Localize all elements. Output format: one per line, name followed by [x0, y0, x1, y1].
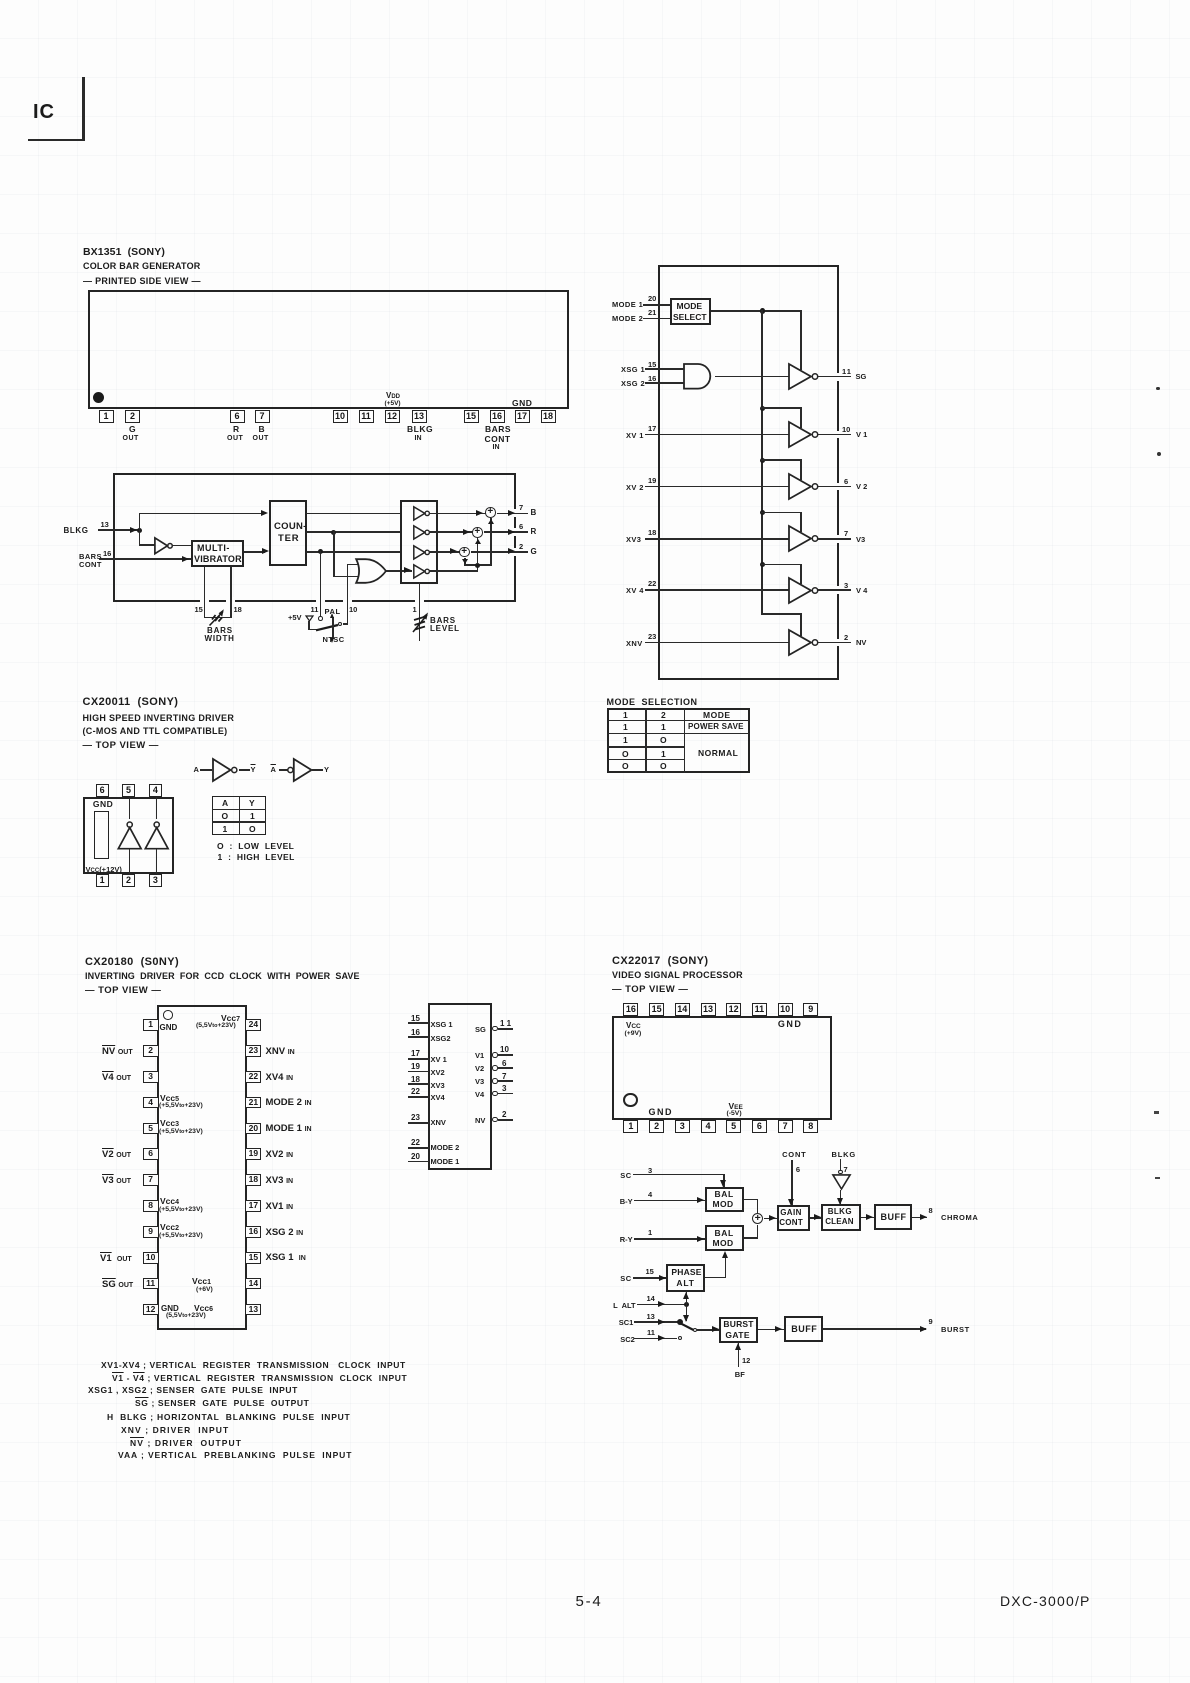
table title	[607, 697, 698, 707]
buffer NV triangle	[788, 629, 821, 656]
BF wire	[738, 1343, 740, 1368]
BAL MOD 2 box	[705, 1225, 744, 1251]
pin 13	[647, 1312, 655, 1321]
wire NV output	[818, 642, 851, 644]
pin 15	[648, 360, 656, 369]
pin 14	[647, 1294, 655, 1303]
pin 10	[333, 410, 348, 423]
buffer V2 triangle	[788, 473, 821, 500]
wire XV2	[645, 486, 789, 488]
BLKG stub	[840, 1159, 842, 1170]
pin 12	[385, 410, 400, 423]
control bus vertical	[761, 310, 763, 615]
BUFF output	[912, 1217, 927, 1219]
wire 4th buffer feed right	[429, 570, 478, 572]
adder G	[459, 547, 470, 558]
XV3 label	[626, 535, 641, 544]
arrowhead into multivibrator	[182, 556, 189, 562]
wire OR lower input	[333, 576, 362, 578]
junction dot on G row (to PAL pin 11)	[318, 549, 323, 554]
pin number 16	[103, 549, 111, 558]
junction dot BLKG	[137, 528, 142, 533]
wire down from R row to OR input	[333, 531, 335, 577]
pin 2 label G OUT	[129, 424, 136, 434]
column line 1	[645, 708, 647, 773]
down arrowhead under G adder	[462, 559, 468, 564]
inverter A1	[154, 537, 176, 555]
SG output name	[856, 372, 867, 381]
up arrowhead under R adder	[475, 539, 481, 544]
title CX22017	[612, 955, 708, 967]
VEE label	[729, 1101, 743, 1111]
wire XV4	[645, 589, 789, 591]
right bubble V2 / 6	[475, 1064, 484, 1073]
NTSC label	[323, 635, 345, 644]
title BX1351	[83, 246, 165, 258]
pin 1	[648, 1228, 652, 1237]
BARS WIDTH label	[207, 626, 233, 635]
wire B bubble to adder	[429, 513, 486, 515]
wire BARS CONT	[99, 558, 191, 560]
page number	[576, 1593, 603, 1610]
Vcc1	[192, 1276, 211, 1286]
IC tab horizontal line	[28, 139, 85, 142]
bars width variable resistor arrow	[206, 605, 230, 629]
adder to GAIN CONT	[764, 1218, 777, 1220]
title CX20011	[83, 696, 179, 708]
BURST GATE box	[719, 1317, 758, 1343]
wire counter output R row	[306, 531, 401, 533]
BAL MOD 1 box	[705, 1187, 744, 1212]
NTSC contact circle	[338, 622, 342, 626]
pin 6	[796, 1165, 800, 1174]
pin 13	[412, 410, 427, 423]
legend low/high	[217, 841, 294, 851]
buffer B triangle	[413, 506, 435, 521]
R-Y input label	[620, 1235, 633, 1244]
Vcc7	[221, 1013, 240, 1023]
right outside labels	[266, 1046, 295, 1057]
switch pivot dot	[677, 1319, 683, 1325]
bottom pin 2	[122, 874, 135, 887]
Vcc6	[194, 1303, 213, 1313]
wire 4th feed up	[477, 564, 479, 571]
wire counter output G row	[306, 551, 401, 553]
V2 output name	[856, 482, 867, 491]
left pin boxes 1-12	[143, 1019, 159, 1031]
V3 OUT	[102, 1175, 131, 1186]
feed to B adder (vertical)	[490, 518, 492, 564]
wire MODE1	[643, 304, 670, 306]
BLKG label	[832, 1150, 856, 1159]
pin 7 label	[844, 529, 848, 538]
switch arm	[678, 1321, 697, 1332]
row line 4 (cols 1-2 only)	[607, 759, 686, 760]
B-Y wire	[634, 1200, 705, 1202]
wire V1 output	[818, 434, 851, 436]
arrowhead on BLKG wire	[130, 527, 137, 533]
SC wire down into BAL MOD	[723, 1174, 725, 1187]
V1 OUT	[100, 1253, 132, 1264]
BUFF2 output wire	[823, 1328, 926, 1330]
XV 4 label	[626, 586, 644, 595]
GND bottom	[649, 1107, 674, 1117]
left stub 23 / XNV	[411, 1113, 420, 1122]
pin 22	[648, 579, 656, 588]
switch arm contact circle	[693, 1328, 697, 1332]
PAL label	[325, 607, 341, 616]
+5V wire right	[308, 629, 317, 631]
right bubble V4 / 3	[475, 1090, 484, 1099]
wire XNV	[645, 642, 789, 644]
left stub 22 / XV4	[411, 1087, 420, 1096]
Vcc4	[160, 1196, 179, 1206]
pin 2 label	[844, 633, 848, 642]
pin 7 label B OUT	[259, 424, 265, 434]
arrowhead before G adder	[450, 548, 457, 554]
pin 11 label	[842, 367, 852, 376]
GND label top	[512, 398, 532, 408]
A/Y truth table	[212, 796, 266, 835]
wire down to pin 11	[320, 551, 322, 616]
inverter symbol A to Ybar	[194, 765, 199, 774]
V1 control wire	[761, 407, 802, 409]
counter box	[269, 500, 307, 566]
junction dot bus top	[760, 308, 765, 313]
CHROMA label	[941, 1213, 978, 1222]
wire XV3	[645, 538, 789, 540]
SC1 wire	[634, 1321, 679, 1323]
left stub 20 / MODE 1	[411, 1152, 420, 1161]
buffer R triangle	[413, 525, 435, 540]
BUFF box (chroma)	[874, 1204, 912, 1230]
pin 17	[648, 424, 656, 433]
pin label 11	[311, 605, 319, 614]
PHASE ALT output to BAL MOD 2	[705, 1277, 726, 1279]
package CX22017	[612, 1016, 833, 1120]
right pin boxes 24-13	[245, 1019, 261, 1031]
arrowhead into 4th buffer	[404, 567, 411, 573]
junction dot L ALT	[684, 1302, 689, 1307]
top pin 6	[96, 784, 109, 797]
SECTION: signal legend	[101, 1360, 406, 1370]
table cells	[623, 710, 628, 720]
wire to burst gate	[697, 1329, 719, 1331]
wire V3 output	[818, 538, 851, 540]
pin 12	[742, 1356, 750, 1365]
feed to R adder (vertical)	[477, 538, 479, 564]
left stub 19 / XV2	[411, 1062, 420, 1071]
V3 row: bus junction dot	[760, 510, 765, 515]
V4 control wire	[761, 564, 802, 566]
wire top branch to counter	[139, 513, 263, 515]
pin number 13	[101, 520, 109, 529]
V2 control wire	[761, 459, 802, 461]
buffer V3 triangle	[788, 525, 821, 552]
Vcc5	[160, 1093, 179, 1103]
BARS LEVEL label	[430, 616, 456, 625]
wire G bubble to adder	[429, 551, 460, 553]
wire pin10 vertical (OR upper input down through boundary)	[347, 564, 349, 625]
buffer block box	[400, 500, 438, 584]
arrowhead before B adder	[476, 510, 483, 516]
wire AND output to SG buffer	[715, 376, 789, 378]
wire XSG1	[645, 368, 684, 370]
SG OUT	[102, 1279, 133, 1290]
PAL/NTSC toggle arrow (double head)	[332, 617, 333, 639]
junction dot feed	[475, 563, 480, 568]
bars level variable resistor	[407, 608, 433, 636]
GND pin1	[160, 1023, 178, 1032]
top pin 5	[122, 784, 135, 797]
pin 8	[929, 1206, 933, 1215]
buffer 4 triangle	[413, 564, 435, 579]
row line 3 (cols 1-2 only)	[607, 746, 686, 747]
package CX20180	[157, 1005, 246, 1331]
white gaps for wires crossing boundary	[510, 509, 518, 517]
adder B	[485, 507, 496, 518]
multivibrator pin 18 wire	[230, 567, 232, 618]
V4 OUT	[102, 1072, 131, 1083]
CONT wire down	[791, 1160, 793, 1205]
buffer V4 triangle	[788, 577, 821, 604]
wire V2 output	[818, 486, 851, 488]
wire NTSC circle to pin10 vertical	[343, 623, 349, 625]
SC(15) wire	[633, 1277, 667, 1279]
BLKG inverter bubble	[838, 1170, 843, 1175]
wire inverter2 base to pin3	[156, 849, 158, 875]
pin 6 label	[844, 477, 848, 486]
V3 output name	[856, 535, 865, 544]
row line 2	[607, 733, 750, 735]
wire MODE SELECT output	[711, 310, 802, 312]
wire multivibrator to counter	[244, 551, 265, 553]
V4 output name	[856, 586, 867, 595]
pin 4	[648, 1190, 652, 1199]
pin 13 label BLKG IN	[407, 424, 433, 434]
right bubble SG / 11	[475, 1025, 486, 1034]
GAIN to BLKG CLEAN	[810, 1217, 822, 1219]
bottom pin boxes 1..8	[623, 1120, 638, 1133]
node: BLKG input label	[64, 526, 89, 535]
PHASE ALT box	[666, 1264, 705, 1292]
R-Y wire	[634, 1238, 705, 1240]
MODE SELECT box	[670, 298, 711, 325]
+5V label	[288, 613, 302, 622]
wire inverter1 base to pin2	[129, 849, 131, 875]
XSG 1 label	[621, 365, 645, 374]
SG control drop	[800, 310, 802, 370]
inverter symbol Abar to Y	[271, 765, 276, 774]
GAIN CONT box	[777, 1205, 810, 1232]
outer boundary box	[658, 265, 840, 680]
index circle	[623, 1093, 638, 1108]
MODE 2 label	[612, 314, 643, 323]
GND pin12	[161, 1304, 179, 1313]
bottom pin 1	[96, 874, 109, 887]
pin1 index dot	[93, 392, 104, 403]
buffer SG triangle	[788, 363, 821, 390]
SC2 wire	[634, 1338, 677, 1340]
MODE 1 label	[612, 300, 643, 309]
pin 19	[648, 476, 656, 485]
Vdd label	[386, 391, 400, 400]
package CX20011	[83, 797, 174, 874]
SC2 open contact	[678, 1336, 682, 1340]
wire SG output	[818, 376, 851, 378]
column line 2	[684, 708, 686, 773]
BURST label	[941, 1325, 970, 1334]
table frame	[607, 708, 750, 773]
SC2 label	[620, 1335, 635, 1344]
pin label 10	[349, 605, 357, 614]
V3 control wire	[761, 512, 802, 514]
Vcc3	[160, 1118, 179, 1128]
SC(3) input label	[620, 1171, 631, 1180]
BLKG inverted triangle	[832, 1174, 851, 1190]
wire vertical at junction	[139, 513, 141, 546]
scan speck 1	[1156, 387, 1160, 391]
IC body BX1351 package	[88, 290, 569, 409]
inverter 1 (up)	[117, 821, 143, 850]
pin label 1 (bars level)	[413, 605, 417, 614]
+5V terminal triangle	[305, 615, 314, 622]
top pin 4	[149, 784, 163, 797]
wire R adder to output	[484, 531, 528, 533]
Vcc label	[626, 1021, 641, 1030]
V1 output name	[856, 430, 867, 439]
Vcc2	[160, 1222, 179, 1232]
VCC label	[86, 865, 122, 874]
BLKG CLEAN box	[821, 1204, 860, 1231]
outer boundary box	[113, 473, 516, 602]
adder R	[472, 527, 483, 538]
CONT label	[782, 1150, 806, 1159]
pin 10 label	[842, 425, 850, 434]
vertical PHASE ALT feed	[686, 1292, 688, 1322]
multivibrator pin 15 wire	[204, 567, 206, 618]
XNV label	[626, 639, 643, 648]
BAL2 to adder	[744, 1237, 757, 1239]
pin 9	[929, 1317, 933, 1326]
left stub 18 / XV3	[411, 1075, 420, 1084]
output pin labels 7/6/2 and B/R/G	[519, 503, 523, 512]
arrowhead into counter (mid)	[262, 548, 269, 554]
up arrowhead under B adder	[488, 519, 494, 524]
left stub 16 / XSG2	[411, 1028, 420, 1037]
pin 20	[648, 294, 656, 303]
pin label 15	[195, 605, 203, 614]
arrowhead B output	[508, 510, 515, 516]
row line 1	[607, 720, 750, 722]
right bubble V1 / 10	[475, 1051, 484, 1060]
wire inverter to multivibrator	[172, 545, 191, 547]
pin 16	[490, 410, 505, 423]
arrowhead before R adder	[463, 529, 470, 535]
wire counter output B row	[306, 513, 401, 515]
arrowhead into counter (top)	[261, 510, 268, 516]
arrowhead G output	[508, 548, 515, 554]
V1 row: bus junction dot	[760, 406, 765, 411]
inverter 2 (up)	[144, 821, 170, 850]
switch arm to NTSC	[315, 622, 341, 632]
scan speck 2	[1157, 452, 1161, 456]
pin 6 label R OUT	[233, 424, 239, 434]
wire OR output to buffer block	[386, 570, 412, 572]
BAL1 to adder	[744, 1199, 757, 1201]
right bubble V3 / 7	[475, 1077, 484, 1086]
wire V4 output	[818, 589, 851, 591]
document number	[1000, 1593, 1091, 1609]
pin1 index circle	[163, 1010, 173, 1020]
pin 3	[648, 1166, 652, 1175]
left stub 17 / XV1	[411, 1049, 420, 1058]
pin 2	[125, 410, 140, 423]
pin 23	[648, 632, 656, 641]
adder circle	[752, 1213, 764, 1225]
pin 11	[647, 1328, 655, 1337]
NV control corner	[761, 613, 802, 615]
wire pin5 to inverter1 bubble	[129, 797, 131, 819]
body box	[428, 1003, 492, 1170]
pin 15	[464, 410, 479, 423]
PAL contact circle (pin 11 end)	[318, 616, 322, 620]
buffer G triangle	[413, 545, 435, 560]
BLKG wire to clean box	[840, 1190, 842, 1205]
OR gate	[355, 558, 389, 584]
SC1 label	[619, 1318, 634, 1327]
SC(15) input label	[620, 1274, 631, 1283]
wire lower branch to inverter	[139, 544, 155, 546]
multivibrator box	[191, 540, 245, 567]
wire pin4 to inverter2 bubble	[156, 797, 158, 819]
junction dot on R row (to OR gate)	[331, 530, 336, 535]
scan speck 3	[1154, 1111, 1159, 1114]
pin 16	[648, 374, 656, 383]
pin 11	[359, 410, 374, 423]
bottom pin 3	[149, 874, 163, 887]
pin 16 label BARS CONT IN	[485, 424, 511, 434]
buffer V1 triangle	[788, 421, 821, 448]
+5V wire down	[308, 621, 310, 630]
wire R bubble to adder	[429, 531, 473, 533]
V2 OUT	[102, 1149, 131, 1160]
XV 1 label	[626, 431, 644, 440]
right bubble NV / 2	[475, 1116, 485, 1125]
IC tab text	[33, 101, 55, 124]
pin 17	[515, 410, 530, 423]
XV 2 label	[626, 483, 644, 492]
pin 18	[541, 410, 556, 423]
feed to G adder (vertical)	[464, 558, 466, 566]
SC wire	[633, 1174, 725, 1176]
pin 1	[99, 410, 114, 423]
bars width join wire	[204, 617, 232, 619]
pin 6	[230, 410, 245, 423]
pin 3 label	[844, 581, 848, 590]
AND gate XSG	[683, 363, 715, 390]
pin 7	[255, 410, 270, 423]
node: BARS CONT input label	[79, 552, 102, 561]
feed bus horizontal	[464, 564, 492, 566]
V2 row: bus junction dot	[760, 458, 765, 463]
NV output name	[856, 638, 866, 647]
top pin boxes 16..9	[623, 1003, 638, 1016]
wire OR upper input	[347, 564, 363, 566]
pin 7	[844, 1165, 848, 1174]
BF label	[735, 1370, 745, 1379]
bars level wire	[419, 582, 421, 641]
